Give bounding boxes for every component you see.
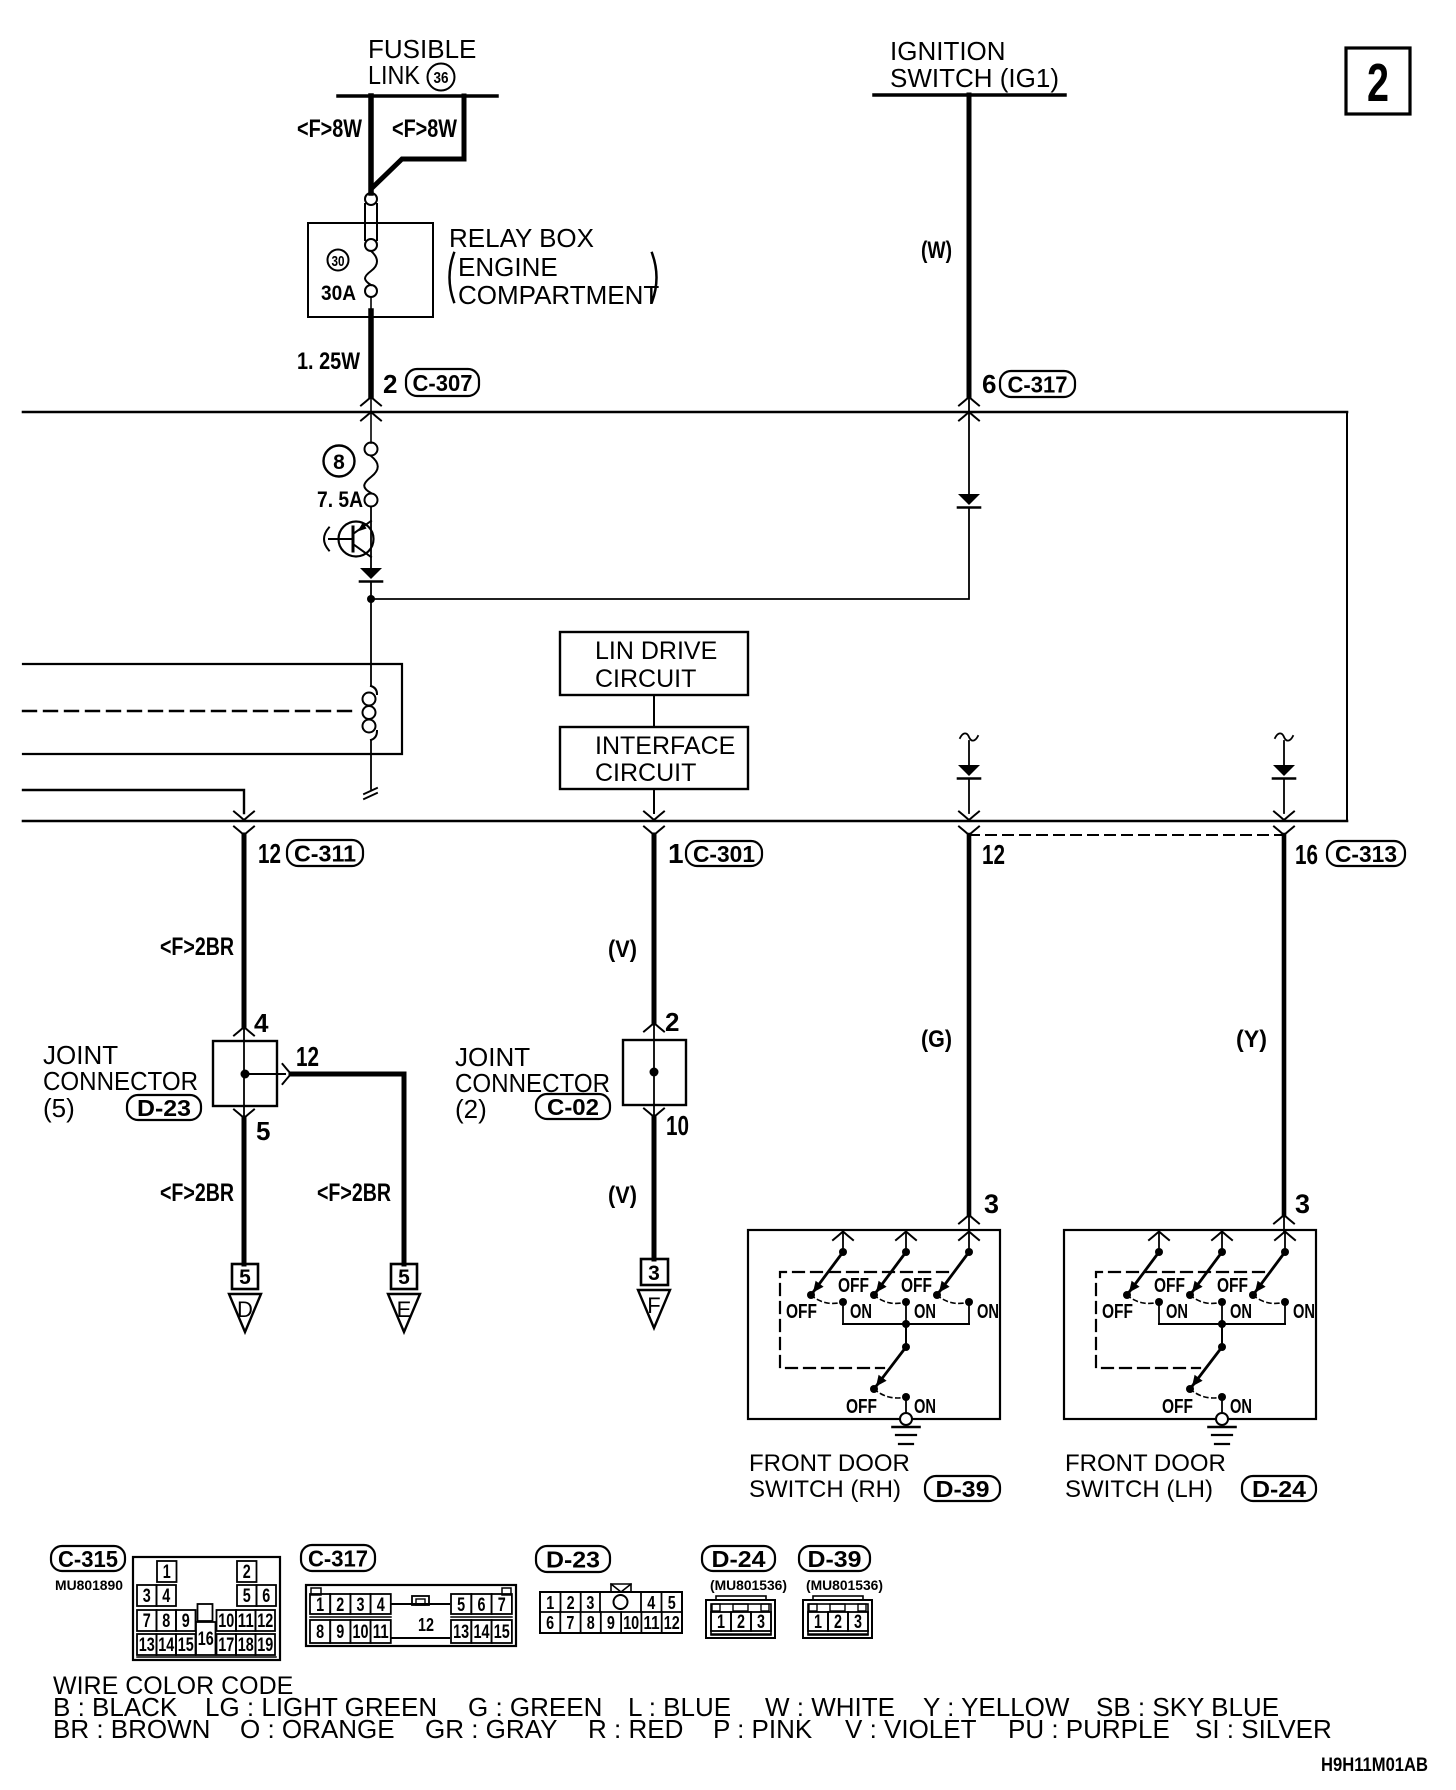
- svg-text:8: 8: [316, 1622, 324, 1643]
- connector badge D-39: [925, 1476, 1000, 1502]
- diode door switch LH (Y): [1273, 765, 1295, 779]
- svg-text:4: 4: [647, 1593, 655, 1613]
- diode from IG1 feed: [958, 494, 980, 508]
- lower switch arm RH: [870, 1347, 906, 1393]
- ON contact LH sw3: [1281, 1298, 1289, 1324]
- terminal chevron LH sw1: [1149, 1232, 1169, 1241]
- svg-text:11: 11: [373, 1622, 389, 1643]
- fuse element 30A: [365, 251, 377, 297]
- chevron C-311 above bus: [234, 812, 254, 821]
- joint connector node: [241, 1070, 250, 1079]
- feeder wire to C-311: [23, 790, 244, 813]
- chevron into door switch RH (G): [959, 1215, 979, 1224]
- wire 2BR down to joint connector: [242, 835, 247, 1027]
- svg-text:LIN DRIVE: LIN DRIVE: [595, 637, 717, 665]
- svg-text:E: E: [397, 1297, 412, 1322]
- lower throw arc RH: [874, 1389, 906, 1398]
- svg-text:FRONT DOOR: FRONT DOOR: [1065, 1450, 1226, 1477]
- wire 1.25W to pin 2: [370, 297, 372, 396]
- svg-text:D-23: D-23: [546, 1546, 600, 1572]
- legend badge C-317: [301, 1545, 375, 1571]
- svg-text:D-24: D-24: [1252, 1476, 1306, 1502]
- fusible link element symbol: [365, 193, 377, 251]
- svg-text:7. 5A: 7. 5A: [317, 487, 363, 512]
- svg-text:SWITCH (LH): SWITCH (LH): [1065, 1476, 1213, 1503]
- svg-text:1: 1: [546, 1593, 554, 1613]
- svg-text:3: 3: [143, 1586, 151, 1607]
- svg-text:30: 30: [332, 253, 345, 270]
- connector badge C-02: [536, 1094, 610, 1120]
- svg-text:10: 10: [218, 1611, 234, 1632]
- svg-text:3: 3: [586, 1593, 594, 1613]
- connector badge D-24: [1242, 1476, 1316, 1502]
- dashed relay control line: [23, 710, 357, 712]
- svg-text:(5): (5): [43, 1093, 75, 1123]
- svg-text:5: 5: [457, 1595, 465, 1616]
- svg-text:8: 8: [587, 1613, 595, 1633]
- wire 2BR branch to ground E: [291, 1074, 404, 1264]
- ETACS-ECU box (top bus, right edge, bottom bus): [23, 412, 1347, 821]
- link junction LH: [1218, 1320, 1226, 1328]
- wire pin2 to fuse 8: [370, 397, 372, 443]
- svg-text:3: 3: [648, 1262, 660, 1285]
- terminal chevron RH sw3: [959, 1232, 979, 1241]
- break mark door feed RH (G): [960, 733, 978, 740]
- dashed knob-lock frame RH: [780, 1272, 948, 1368]
- switch stub LH sw3: [1284, 1231, 1286, 1248]
- joint connector (5) box D-23: [213, 1041, 277, 1106]
- svg-text:C-317: C-317: [1008, 371, 1068, 397]
- svg-text:ON: ON: [1230, 1301, 1252, 1323]
- wire (V) down to ground F: [652, 1117, 657, 1259]
- svg-text:ON: ON: [1166, 1301, 1188, 1323]
- legend badge D-39: [799, 1546, 870, 1572]
- svg-text:OFF: OFF: [846, 1396, 877, 1418]
- svg-text:OFF: OFF: [1154, 1275, 1185, 1297]
- lower switch pivot RH: [902, 1343, 910, 1351]
- legend connector C-317 outline: [306, 1585, 516, 1646]
- wire (V) down to joint connector: [652, 835, 657, 1023]
- joint connector node C-02: [650, 1068, 659, 1077]
- page number box 2: [1346, 48, 1410, 114]
- svg-text:4: 4: [254, 1008, 269, 1038]
- chevron into C-02 pin 2: [644, 1023, 664, 1032]
- chevron C-02 pin 10: [644, 1109, 664, 1118]
- switch arm RH sw2: [870, 1252, 906, 1299]
- svg-text:2: 2: [1367, 53, 1389, 113]
- svg-text:36: 36: [434, 70, 449, 87]
- svg-text:1: 1: [717, 1612, 725, 1633]
- svg-text:CONNECTOR: CONNECTOR: [43, 1066, 198, 1096]
- svg-text:OFF: OFF: [901, 1275, 932, 1297]
- svg-text:13: 13: [139, 1635, 155, 1656]
- svg-text:5: 5: [256, 1116, 270, 1146]
- chassis ground RH: [893, 1427, 920, 1444]
- ground lead box 3 (F): [641, 1259, 668, 1285]
- svg-text:11: 11: [644, 1613, 660, 1633]
- ground lead box 5 (E): [391, 1264, 417, 1289]
- wire LIN to INTERFACE: [653, 695, 655, 727]
- terminal chevron RH sw1: [833, 1232, 853, 1241]
- wire junction to coil: [370, 599, 372, 686]
- connector badge C-311: [287, 840, 363, 866]
- legend badge D-24: [702, 1546, 775, 1572]
- INTERFACE CIRCUIT box: [560, 727, 748, 789]
- svg-text:<F>2BR: <F>2BR: [160, 1179, 234, 1207]
- svg-text:SWITCH (RH): SWITCH (RH): [749, 1476, 901, 1503]
- legend connector D-39: [803, 1596, 872, 1638]
- legend connector C-315 outline: [133, 1557, 280, 1660]
- svg-text:5: 5: [243, 1586, 251, 1607]
- svg-text:30A: 30A: [321, 282, 356, 305]
- svg-text:C-313: C-313: [1335, 841, 1397, 867]
- svg-text:1: 1: [668, 838, 684, 869]
- ON contact RH sw1: [839, 1298, 847, 1324]
- chassis ground LH: [1209, 1427, 1236, 1444]
- junction node: [367, 595, 375, 603]
- lower switch arm LH: [1186, 1347, 1222, 1393]
- svg-text:FRONT DOOR: FRONT DOOR: [749, 1450, 910, 1477]
- svg-text:11: 11: [238, 1611, 254, 1632]
- switch pivot RH sw1: [839, 1248, 847, 1256]
- chevron C-301 below bus: [644, 827, 664, 836]
- ON link line LH: [1159, 1323, 1285, 1325]
- switch stub RH sw2: [905, 1231, 907, 1248]
- wire pin6 to diode: [968, 397, 970, 494]
- svg-text:1: 1: [814, 1612, 822, 1633]
- svg-text:12: 12: [257, 1611, 273, 1632]
- switch pivot LH sw3: [1281, 1248, 1289, 1256]
- svg-text:BR : BROWN: BR : BROWN: [53, 1714, 210, 1744]
- svg-text:F: F: [647, 1293, 660, 1318]
- svg-text:(G): (G): [921, 1026, 952, 1053]
- svg-text:2: 2: [336, 1595, 344, 1616]
- ON contact LH sw1: [1155, 1298, 1163, 1324]
- svg-text:P : PINK: P : PINK: [713, 1714, 813, 1744]
- svg-text:LINK: LINK: [368, 60, 421, 90]
- svg-text:10: 10: [353, 1622, 369, 1643]
- svg-text:3: 3: [854, 1612, 862, 1633]
- chevron C-307 below bus: [361, 412, 381, 421]
- wire diode to bus LH (Y): [1283, 779, 1285, 813]
- svg-text:9: 9: [336, 1622, 344, 1643]
- switch stub LH sw2: [1221, 1231, 1223, 1248]
- diode below transistor: [360, 568, 382, 582]
- svg-text:2: 2: [383, 369, 397, 399]
- D-23 pin cells: [540, 1584, 682, 1633]
- svg-text:15: 15: [178, 1635, 194, 1656]
- svg-text:13: 13: [453, 1622, 469, 1643]
- svg-text:9: 9: [607, 1613, 615, 1633]
- switch stub LH sw1: [1158, 1231, 1160, 1248]
- svg-text:<F>2BR: <F>2BR: [317, 1179, 391, 1207]
- chevron C-307 above bus: [361, 397, 381, 406]
- svg-text:(MU801536): (MU801536): [710, 1577, 787, 1593]
- svg-text:(W): (W): [921, 237, 952, 264]
- svg-text:H9H11M01AB: H9H11M01AB: [1321, 1755, 1428, 1776]
- svg-text:3: 3: [357, 1595, 365, 1616]
- svg-text:14: 14: [158, 1635, 174, 1656]
- svg-text:ON: ON: [914, 1396, 936, 1418]
- ON link line RH: [843, 1323, 969, 1325]
- chevron C-311 below bus: [234, 827, 254, 836]
- svg-text:12: 12: [418, 1615, 434, 1635]
- chevron above bus RH (G): [959, 812, 979, 821]
- svg-text:ON: ON: [914, 1301, 936, 1323]
- svg-text:RELAY BOX: RELAY BOX: [449, 223, 594, 253]
- ON contact RH sw2: [902, 1298, 910, 1324]
- fuse number circle 8: [324, 446, 355, 477]
- lower switch pivot LH: [1218, 1343, 1226, 1351]
- wire into C-02: [653, 1023, 655, 1105]
- chevron above bus LH (Y): [1274, 812, 1294, 821]
- svg-text:C-311: C-311: [294, 840, 356, 866]
- switch pivot RH sw3: [965, 1248, 973, 1256]
- svg-text:C-315: C-315: [58, 1546, 118, 1572]
- legend badge D-23: [536, 1546, 610, 1572]
- svg-text:8: 8: [333, 451, 345, 474]
- wire below C-02: [653, 1105, 655, 1117]
- wire down to door switch RH (G): [967, 835, 972, 1215]
- svg-text:SI : SILVER: SI : SILVER: [1195, 1714, 1332, 1744]
- svg-text:(MU801536): (MU801536): [806, 1577, 883, 1593]
- svg-text:ENGINE: ENGINE: [458, 252, 558, 282]
- connector badge C-307: [406, 369, 479, 396]
- switch pivot RH sw2: [902, 1248, 910, 1256]
- svg-text:5: 5: [398, 1266, 410, 1289]
- front door switch box LH: [1064, 1230, 1316, 1419]
- svg-text:OFF: OFF: [1162, 1396, 1193, 1418]
- ignition switch supply bar: [874, 93, 1065, 97]
- svg-text:(V): (V): [608, 936, 637, 963]
- svg-text:O : ORANGE: O : ORANGE: [240, 1714, 395, 1744]
- ground destination triangle E: [388, 1294, 420, 1332]
- svg-text:2: 2: [834, 1612, 842, 1633]
- fuse element 7.5A: [364, 443, 378, 507]
- svg-text:12: 12: [982, 839, 1005, 870]
- svg-text:2: 2: [243, 1562, 251, 1583]
- svg-text:16: 16: [198, 1629, 214, 1650]
- wire junction to ignition diode branch: [371, 509, 969, 599]
- lower ON contact RH: [902, 1393, 910, 1413]
- switch throw arc LH sw2: [1190, 1295, 1222, 1303]
- svg-text:<F>2BR: <F>2BR: [160, 933, 234, 961]
- branch wire to pin 12: [249, 1073, 285, 1075]
- svg-text:6: 6: [982, 369, 996, 399]
- big parentheses: [450, 253, 657, 302]
- wire down to door switch LH (Y): [1282, 835, 1287, 1215]
- svg-text:C-02: C-02: [547, 1094, 599, 1120]
- svg-text:ON: ON: [977, 1301, 999, 1323]
- svg-text:D-24: D-24: [712, 1546, 766, 1572]
- connector badge D-23: [127, 1095, 201, 1121]
- broken wire mark: [364, 788, 377, 799]
- switch throw arc RH sw3: [937, 1295, 969, 1303]
- svg-text:IGNITION: IGNITION: [890, 36, 1006, 66]
- svg-text:COMPARTMENT: COMPARTMENT: [458, 280, 659, 310]
- svg-text:6: 6: [262, 1586, 270, 1607]
- ground terminal circle RH: [900, 1413, 912, 1425]
- wire below D-23: [243, 1106, 245, 1118]
- svg-text:5: 5: [668, 1593, 676, 1613]
- switch pivot LH sw2: [1218, 1248, 1226, 1256]
- svg-text:SWITCH (IG1): SWITCH (IG1): [890, 63, 1059, 93]
- transistor (door lock power): [324, 521, 374, 557]
- legend badge C-315: [51, 1546, 125, 1572]
- wire (W) from ignition switch: [967, 95, 972, 396]
- svg-text:17: 17: [218, 1635, 234, 1656]
- switch arm RH sw3: [933, 1252, 969, 1299]
- wire diode to junction: [370, 582, 372, 598]
- fuse number circle 30: [328, 250, 349, 271]
- svg-text:D-39: D-39: [808, 1546, 862, 1572]
- C-317 pin cells: [310, 1594, 512, 1643]
- ground destination triangle F: [638, 1290, 670, 1328]
- svg-text:2: 2: [567, 1593, 575, 1613]
- svg-text:1. 25W: 1. 25W: [297, 348, 360, 375]
- wire INTERFACE to pin 1: [653, 789, 655, 813]
- switch throw arc RH sw1: [811, 1295, 843, 1303]
- svg-text:ON: ON: [1293, 1301, 1315, 1323]
- switch stub RH sw3: [968, 1231, 970, 1248]
- svg-text:3: 3: [1295, 1189, 1310, 1219]
- svg-text:4: 4: [377, 1595, 385, 1616]
- svg-text:1: 1: [163, 1562, 171, 1583]
- front door switch box RH: [748, 1230, 1000, 1419]
- wire 2BR down to ground D: [242, 1118, 247, 1264]
- svg-text:6: 6: [546, 1613, 554, 1633]
- chevron D-23 pin 5: [234, 1110, 254, 1119]
- chevron below bus LH (Y): [1274, 827, 1294, 836]
- svg-text:12: 12: [296, 1041, 319, 1072]
- svg-text:7: 7: [143, 1611, 151, 1632]
- switch arm LH sw3: [1249, 1252, 1285, 1299]
- chevron C-317 above bus: [959, 397, 979, 406]
- lower ON contact LH: [1218, 1393, 1226, 1413]
- C-315 pin cells: [137, 1561, 276, 1657]
- svg-text:C-317: C-317: [308, 1545, 368, 1571]
- svg-text:R : RED: R : RED: [588, 1714, 683, 1744]
- svg-text:7: 7: [566, 1613, 574, 1633]
- dashed knob-lock frame LH: [1096, 1272, 1264, 1368]
- switch pivot LH sw1: [1155, 1248, 1163, 1256]
- svg-text:4: 4: [162, 1586, 170, 1607]
- svg-text:C-301: C-301: [693, 841, 755, 867]
- svg-text:3: 3: [984, 1189, 999, 1219]
- svg-text:D-39: D-39: [936, 1476, 990, 1502]
- wire into door switch box LH (Y): [1283, 1215, 1285, 1231]
- ON contact LH sw2: [1218, 1298, 1226, 1324]
- wire to diode RH (G): [968, 741, 970, 765]
- connector badge C-301: [686, 841, 762, 867]
- break mark door feed LH (Y): [1275, 733, 1293, 740]
- chevron below bus RH (G): [959, 827, 979, 836]
- terminal chevron LH sw3: [1275, 1232, 1295, 1241]
- svg-text:8: 8: [162, 1611, 170, 1632]
- svg-text:(V): (V): [608, 1182, 637, 1209]
- svg-text:CIRCUIT: CIRCUIT: [595, 759, 696, 787]
- relay box outline: [308, 223, 433, 317]
- svg-text:10: 10: [623, 1613, 639, 1633]
- svg-text:7: 7: [498, 1595, 506, 1616]
- svg-text:(Y): (Y): [1236, 1026, 1267, 1053]
- svg-text:OFF: OFF: [838, 1275, 869, 1297]
- svg-text:12: 12: [258, 838, 281, 869]
- svg-text:2: 2: [665, 1007, 679, 1037]
- chevron into door switch LH (Y): [1274, 1215, 1294, 1224]
- fusible link supply bar: [338, 94, 497, 98]
- chevron C-317 below bus: [959, 412, 979, 421]
- terminal chevron LH sw2: [1212, 1232, 1232, 1241]
- fusible link number circle 36: [428, 64, 455, 91]
- relay coil compartment box: [23, 664, 402, 754]
- svg-text:GR : GRAY: GR : GRAY: [425, 1714, 557, 1744]
- LIN DRIVE CIRCUIT box: [560, 632, 748, 695]
- svg-text:2: 2: [737, 1612, 745, 1633]
- svg-text:OFF: OFF: [1102, 1301, 1133, 1323]
- dashed link below bus: [969, 834, 1284, 836]
- chevron D-23 pin 12: [283, 1064, 292, 1084]
- switch throw arc RH sw2: [874, 1295, 906, 1303]
- chevron C-301 above bus: [644, 812, 664, 821]
- svg-text:PU : PURPLE: PU : PURPLE: [1008, 1714, 1170, 1744]
- svg-text:CIRCUIT: CIRCUIT: [595, 665, 696, 693]
- svg-text:16: 16: [1295, 839, 1318, 870]
- svg-text:D-23: D-23: [137, 1095, 191, 1121]
- relay coil: [363, 686, 378, 740]
- svg-text:15: 15: [494, 1622, 510, 1643]
- svg-text:OFF: OFF: [786, 1301, 817, 1323]
- svg-text:6: 6: [477, 1595, 485, 1616]
- switch arm LH sw1: [1123, 1252, 1159, 1299]
- wire from fusible link (thick): [368, 96, 374, 193]
- svg-text:INTERFACE: INTERFACE: [595, 732, 735, 760]
- link junction RH: [902, 1320, 910, 1328]
- wire to lower switch LH: [1221, 1324, 1223, 1347]
- terminal chevron RH sw2: [896, 1232, 916, 1241]
- svg-text:5: 5: [239, 1266, 251, 1289]
- svg-text:14: 14: [473, 1622, 489, 1643]
- ground destination triangle D: [229, 1294, 261, 1332]
- svg-text:19: 19: [257, 1635, 273, 1656]
- svg-text:MU801890: MU801890: [55, 1577, 123, 1593]
- ground terminal circle LH: [1216, 1413, 1228, 1425]
- svg-text:9: 9: [182, 1611, 190, 1632]
- svg-text:12: 12: [664, 1613, 680, 1633]
- svg-text:10: 10: [666, 1110, 689, 1141]
- ON contact RH sw3: [965, 1298, 973, 1324]
- ground lead box 5 (D): [232, 1264, 258, 1289]
- svg-text:(2): (2): [455, 1094, 487, 1124]
- svg-text:<F>8W: <F>8W: [297, 115, 362, 143]
- legend connector D-24: [706, 1596, 775, 1638]
- switch stub RH sw1: [842, 1231, 844, 1248]
- wire to diode LH (Y): [1283, 741, 1285, 765]
- svg-text:V : VIOLET: V : VIOLET: [845, 1714, 977, 1744]
- switch arm LH sw2: [1186, 1252, 1222, 1299]
- svg-text:<F>8W: <F>8W: [392, 115, 457, 143]
- wire flag branch <F>8W: [372, 96, 464, 188]
- svg-text:D: D: [237, 1297, 253, 1322]
- lower throw arc LH: [1190, 1389, 1222, 1398]
- svg-text:OFF: OFF: [1217, 1275, 1248, 1297]
- switch arm RH sw1: [807, 1252, 843, 1299]
- wire fuse to transistor: [370, 507, 372, 568]
- chevron into D-23 pin 4: [234, 1027, 254, 1036]
- svg-text:18: 18: [238, 1635, 254, 1656]
- diode door switch RH (G): [958, 765, 980, 779]
- svg-text:1: 1: [316, 1595, 324, 1616]
